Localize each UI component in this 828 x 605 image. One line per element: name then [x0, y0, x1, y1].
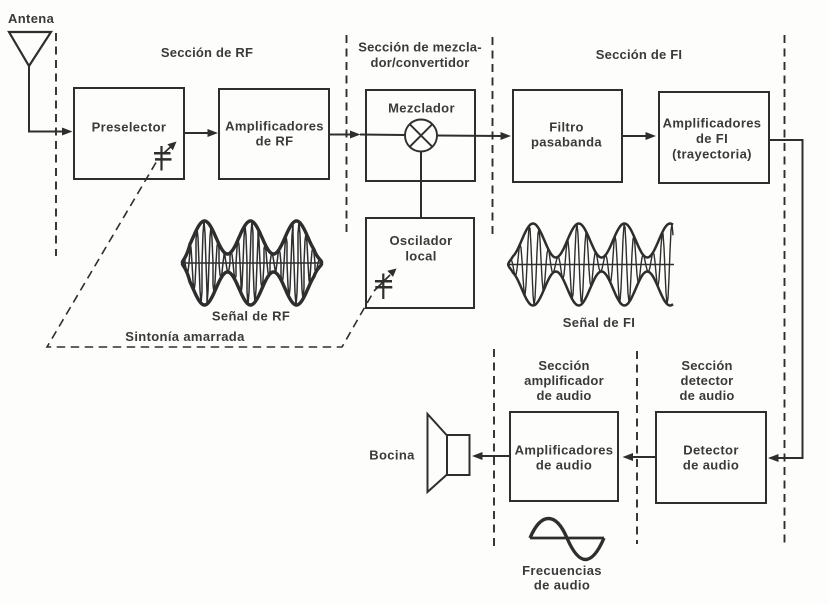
variable capacitor in Preselector	[154, 142, 177, 171]
variable capacitor in Oscilador local	[374, 269, 397, 300]
wire amplificadores de audio to speaker	[472, 452, 510, 460]
label Senal de FI	[563, 315, 635, 330]
wire mixer to filtro pasabanda	[437, 132, 511, 140]
svg-text:de FI: de FI	[696, 131, 728, 146]
speaker Bocina	[428, 414, 470, 492]
svg-text:de audio: de audio	[683, 458, 739, 473]
block Amplificadores de audio	[510, 412, 618, 501]
wire amplificadores de FI to detector de audio	[768, 140, 803, 462]
svg-text:de audio: de audio	[536, 388, 591, 403]
svg-text:Bocina: Bocina	[369, 448, 415, 463]
section label Seccion de mezclador/convertidor	[358, 40, 482, 71]
block Mezclador	[366, 90, 475, 181]
svg-text:Amplificadores: Amplificadores	[225, 119, 324, 134]
wire Amplificadores de RF to mixer	[329, 131, 405, 139]
wire antenna to preselector	[29, 66, 73, 136]
svg-text:Sección: Sección	[681, 358, 732, 373]
dashed section boundary right of FI section	[784, 35, 786, 545]
svg-text:de audio: de audio	[679, 388, 734, 403]
svg-text:Preselector: Preselector	[92, 120, 167, 135]
svg-text:de audio: de audio	[536, 458, 592, 473]
wire filtro to amplificadores de FI	[622, 132, 656, 140]
wire Preselector to Amplificadores de RF	[184, 129, 218, 137]
svg-text:dor/convertidor: dor/convertidor	[370, 55, 469, 70]
svg-text:Mezclador: Mezclador	[388, 101, 455, 116]
section label Seccion de FI	[596, 47, 682, 62]
svg-text:Sintonía amarrada: Sintonía amarrada	[125, 329, 245, 344]
label Bocina	[369, 448, 415, 463]
svg-text:amplificador: amplificador	[524, 373, 604, 388]
FI signal waveform	[507, 224, 674, 306]
wire local oscillator to mixer	[420, 152, 422, 219]
dashed section boundary audio amplifier left	[493, 349, 495, 546]
dashed section boundary mixer left	[346, 35, 348, 236]
svg-text:Amplificadores: Amplificadores	[515, 443, 614, 458]
block Amplificadores de RF	[219, 89, 329, 179]
section label Seccion amplificador de audio	[524, 358, 604, 403]
svg-text:(trayectoria): (trayectoria)	[672, 147, 752, 162]
svg-text:Antena: Antena	[8, 11, 55, 26]
svg-text:Detector: Detector	[683, 443, 739, 458]
linked tuning dashed line (sintonia amarrada)	[47, 163, 374, 348]
block Preselector	[74, 88, 184, 179]
dashed section boundary between audio sections	[636, 351, 638, 544]
svg-text:Sección: Sección	[538, 358, 589, 373]
RF signal waveform	[181, 221, 323, 305]
svg-text:Filtro: Filtro	[549, 120, 584, 135]
section label Seccion de RF	[161, 45, 253, 60]
label Frecuencias de audio	[522, 563, 602, 593]
svg-text:Sección de FI: Sección de FI	[596, 47, 682, 62]
svg-text:detector: detector	[681, 373, 734, 388]
block Oscilador local	[366, 218, 474, 308]
label Sintonia amarrada	[125, 329, 245, 344]
svg-text:Frecuencias: Frecuencias	[522, 563, 602, 578]
svg-text:Oscilador: Oscilador	[389, 233, 452, 248]
section label Seccion detector de audio	[679, 358, 734, 403]
svg-text:Señal de FI: Señal de FI	[563, 315, 635, 330]
svg-text:pasabanda: pasabanda	[531, 135, 602, 150]
audio sine wave	[530, 519, 604, 560]
wire detector to amplificadores de audio	[623, 453, 657, 461]
svg-text:de audio: de audio	[534, 578, 590, 593]
antenna	[9, 32, 51, 66]
dashed section boundary left of RF section	[55, 33, 57, 256]
svg-text:Amplificadores: Amplificadores	[663, 116, 762, 131]
block Filtro pasabanda	[513, 90, 622, 182]
block Amplificadores de FI	[659, 92, 769, 183]
svg-text:local: local	[405, 249, 436, 264]
svg-text:Sección de mezcla-: Sección de mezcla-	[358, 40, 482, 55]
mixer symbol	[405, 120, 437, 152]
dashed section boundary mixer right	[492, 37, 494, 237]
svg-text:de RF: de RF	[256, 134, 294, 149]
svg-text:Sección de RF: Sección de RF	[161, 45, 253, 60]
label Senal de RF	[212, 309, 290, 324]
block Detector de audio	[656, 412, 766, 503]
svg-text:Señal de RF: Señal de RF	[212, 309, 290, 324]
label Antena	[8, 11, 55, 26]
